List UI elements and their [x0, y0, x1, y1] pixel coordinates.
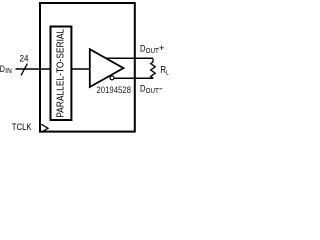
svg-text:+: + — [159, 43, 165, 54]
inner block parallel-to-serial — [51, 27, 72, 121]
svg-text:L: L — [166, 69, 169, 76]
svg-text:24: 24 — [20, 54, 30, 65]
wire OUT+ — [106, 57, 153, 59]
outer device box — [40, 3, 135, 132]
wire D_IN input — [16, 68, 51, 70]
resistor RL zigzag — [151, 58, 156, 78]
svg-text:IN: IN — [5, 68, 12, 75]
wire inner box to driver — [71, 68, 89, 70]
inversion bubble — [110, 76, 114, 80]
driver triangle U1 — [90, 49, 124, 87]
bus slash 24 — [21, 64, 27, 76]
svg-text:TCLK: TCLK — [12, 122, 32, 132]
wire OUT- — [112, 77, 153, 79]
svg-text:-: - — [159, 84, 163, 95]
svg-text:20194528: 20194528 — [97, 85, 131, 95]
svg-text:OUT: OUT — [146, 86, 160, 95]
svg-text:OUT: OUT — [146, 46, 160, 55]
svg-text:D: D — [0, 64, 5, 75]
clock input wedge — [41, 124, 48, 132]
svg-text:PARALLEL-TO-SERIAL: PARALLEL-TO-SERIAL — [55, 29, 66, 118]
